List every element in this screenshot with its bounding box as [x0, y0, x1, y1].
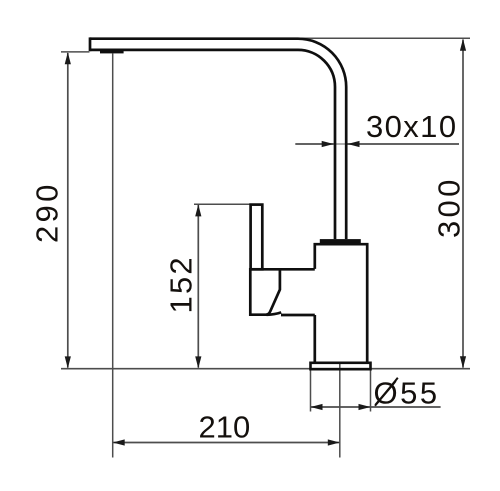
wire dimension line 290	[67, 53, 69, 368]
wire ground line	[61, 368, 470, 370]
wire extension line 210 right (body centre axis)	[339, 363, 341, 458]
handle skirt lip	[266, 312, 281, 314]
wire extension line diameter55 right	[370, 370, 372, 412]
wire dimension line 300	[462, 40, 464, 368]
svg-text:300: 300	[431, 176, 466, 238]
wire extension line 152 top	[194, 203, 250, 205]
wire extension line 210 left	[112, 54, 114, 458]
svg-text:152: 152	[163, 255, 198, 313]
wire extension line 290 top	[61, 51, 90, 53]
svg-text:290: 290	[30, 181, 65, 243]
svg-text:Ø55: Ø55	[374, 376, 440, 411]
handle hub bottom edge	[281, 314, 315, 317]
handle lever	[251, 205, 263, 270]
spout outline	[90, 39, 346, 239]
spout outlet tab	[100, 50, 124, 54]
label diameter slash stroke	[375, 378, 398, 406]
wire dimension line 152	[197, 205, 199, 368]
wire dimension line diameter55	[311, 406, 441, 408]
base plate	[311, 363, 371, 369]
wire dimension line 30x10 left	[295, 143, 333, 145]
svg-text:210: 210	[199, 410, 251, 445]
faucet body	[315, 244, 367, 362]
wire dimension line 30x10 right	[348, 143, 460, 145]
svg-text:30x10: 30x10	[366, 109, 457, 144]
handle hub top edge	[280, 268, 315, 271]
wire dimension line 210	[114, 442, 340, 444]
handle skirt	[250, 269, 280, 314]
wire extension line 300 top	[300, 37, 470, 39]
wire extension line diameter55 left	[310, 370, 312, 412]
flange under tube	[320, 239, 361, 243]
wire dimension line 30x10 across tube	[334, 143, 348, 145]
